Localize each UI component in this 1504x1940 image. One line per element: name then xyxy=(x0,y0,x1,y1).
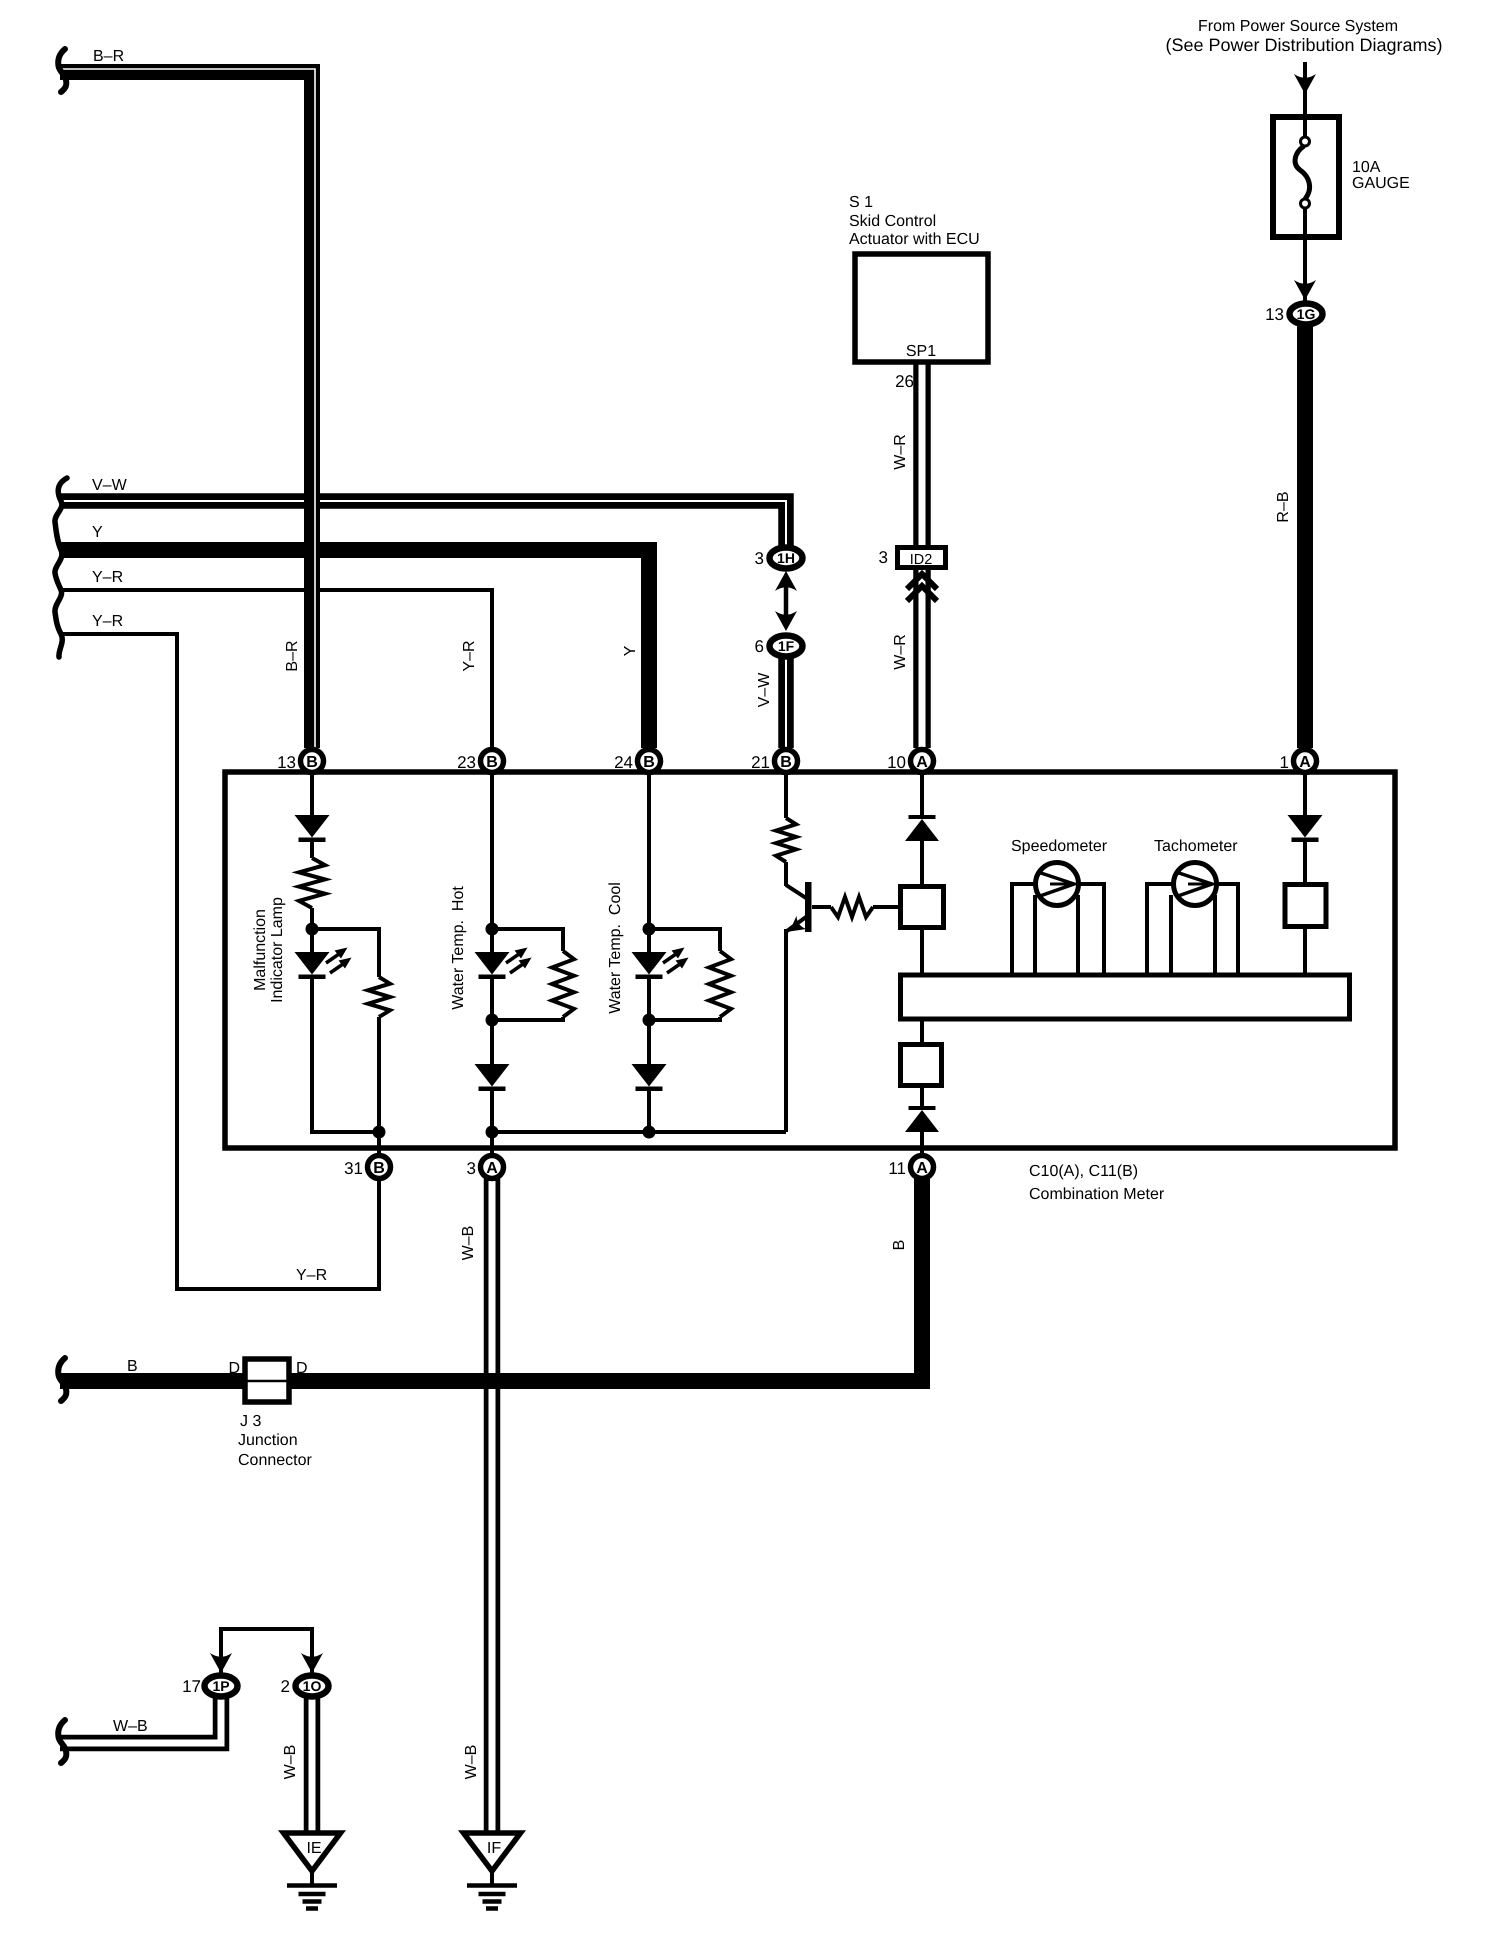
svg-text:IE: IE xyxy=(306,1840,321,1857)
svg-text:31: 31 xyxy=(344,1159,363,1178)
svg-text:24: 24 xyxy=(614,753,633,772)
svg-text:B: B xyxy=(780,754,792,771)
svg-text:B: B xyxy=(643,754,655,771)
svg-text:Y: Y xyxy=(622,645,639,656)
svg-text:1P: 1P xyxy=(212,1678,229,1694)
svg-text:3: 3 xyxy=(467,1159,476,1178)
svg-text:1H: 1H xyxy=(777,550,795,566)
svg-text:1O: 1O xyxy=(303,1678,322,1694)
svg-text:Y–R: Y–R xyxy=(92,613,123,630)
svg-text:Y–R: Y–R xyxy=(92,569,123,586)
svg-text:D: D xyxy=(228,1360,240,1377)
svg-text:3: 3 xyxy=(879,548,888,567)
svg-text:B: B xyxy=(306,754,318,771)
svg-text:ID2: ID2 xyxy=(910,552,933,568)
svg-text:IF: IF xyxy=(487,1840,501,1857)
svg-text:Combination Meter: Combination Meter xyxy=(1029,1186,1165,1203)
svg-text:W–R: W–R xyxy=(892,434,909,470)
svg-text:Tachometer: Tachometer xyxy=(1154,838,1238,855)
svg-text:Actuator with ECU: Actuator with ECU xyxy=(849,231,980,248)
svg-text:B–R: B–R xyxy=(93,48,124,65)
svg-text:W–B: W–B xyxy=(463,1745,480,1780)
svg-text:SP1: SP1 xyxy=(906,343,936,360)
svg-text:A: A xyxy=(916,754,928,771)
svg-text:21: 21 xyxy=(751,753,770,772)
svg-text:23: 23 xyxy=(457,753,476,772)
svg-text:1G: 1G xyxy=(1297,306,1316,322)
svg-text:1F: 1F xyxy=(778,638,795,654)
svg-text:W–B: W–B xyxy=(113,1718,148,1735)
svg-text:Y: Y xyxy=(92,524,103,541)
svg-text:A: A xyxy=(486,1160,498,1177)
svg-text:Indicator Lamp: Indicator Lamp xyxy=(269,897,286,1003)
svg-text:B–R: B–R xyxy=(284,640,301,671)
svg-text:Malfunction: Malfunction xyxy=(252,909,269,991)
svg-text:R–B: R–B xyxy=(1275,491,1292,522)
svg-text:S 1: S 1 xyxy=(849,194,873,211)
svg-text:Skid Control: Skid Control xyxy=(849,213,936,230)
svg-text:17: 17 xyxy=(182,1677,201,1696)
svg-text:13: 13 xyxy=(277,753,296,772)
svg-text:V–W: V–W xyxy=(92,477,128,494)
svg-text:Junction: Junction xyxy=(238,1432,298,1449)
svg-text:Y–R: Y–R xyxy=(296,1267,327,1284)
svg-text:13: 13 xyxy=(1265,305,1284,324)
svg-text:3: 3 xyxy=(755,549,764,568)
svg-text:B: B xyxy=(373,1160,385,1177)
svg-text:Speedometer: Speedometer xyxy=(1011,838,1108,855)
svg-text:26: 26 xyxy=(895,372,914,391)
svg-text:2: 2 xyxy=(281,1677,290,1696)
svg-text:10A: 10A xyxy=(1352,159,1381,176)
svg-text:J 3: J 3 xyxy=(240,1413,261,1430)
svg-text:W–B: W–B xyxy=(282,1745,299,1780)
svg-text:6: 6 xyxy=(755,637,764,656)
svg-text:1: 1 xyxy=(1280,753,1289,772)
svg-text:C10(A), C11(B): C10(A), C11(B) xyxy=(1029,1163,1138,1180)
svg-text:W–B: W–B xyxy=(460,1226,477,1261)
svg-text:11: 11 xyxy=(888,1159,906,1178)
svg-text:(See Power Distribution Diagra: (See Power Distribution Diagrams) xyxy=(1165,35,1442,55)
svg-text:B: B xyxy=(127,1358,138,1375)
svg-text:10: 10 xyxy=(887,753,906,772)
svg-text:Connector: Connector xyxy=(238,1452,312,1469)
svg-text:B: B xyxy=(891,1240,908,1251)
svg-text:GAUGE: GAUGE xyxy=(1352,175,1410,192)
svg-text:From Power Source System: From Power Source System xyxy=(1198,18,1398,35)
svg-text:A: A xyxy=(1299,754,1311,771)
svg-text:Water Temp. Hot: Water Temp. Hot xyxy=(450,886,467,1010)
svg-text:V–W: V–W xyxy=(756,672,773,708)
svg-text:D: D xyxy=(296,1360,308,1377)
svg-text:A: A xyxy=(916,1160,928,1177)
svg-text:Y–R: Y–R xyxy=(461,640,478,671)
svg-text:B: B xyxy=(486,754,498,771)
svg-text:W–R: W–R xyxy=(892,634,909,670)
svg-text:Water Temp. Cool: Water Temp. Cool xyxy=(607,882,624,1014)
